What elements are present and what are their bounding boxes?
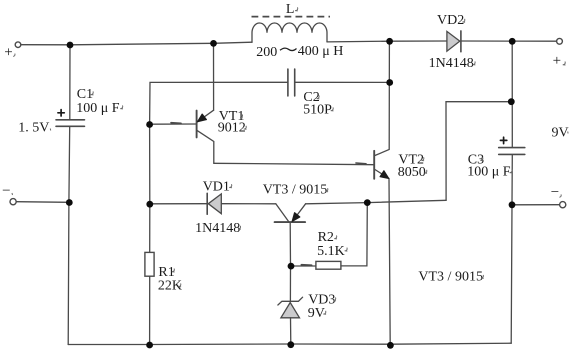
plus sign of C3 xyxy=(500,137,506,143)
node top rail / C1 xyxy=(67,42,74,49)
node bottom rail / VT2 emitter xyxy=(387,342,394,349)
svg-text:VD3: VD3 xyxy=(308,292,335,307)
node top rail / output plus xyxy=(509,38,516,45)
wire VT3 emitter to corner xyxy=(306,200,447,204)
wire R2 node down to VD3 xyxy=(289,266,291,301)
transistor VT2 emitter arrow xyxy=(380,171,389,179)
transistor VT1 base bar xyxy=(196,111,198,138)
terminal circles xyxy=(10,38,566,207)
svg-text:−: − xyxy=(2,183,10,199)
node left minus / C1 branch xyxy=(66,199,73,206)
wire corner up to C3 top node xyxy=(446,102,511,201)
svg-text:510P: 510P xyxy=(303,102,332,117)
wire R2 to VT3 base node xyxy=(291,265,316,267)
terminal top-left plus xyxy=(15,42,21,48)
node C2 right on collector line xyxy=(386,79,393,86)
svg-text:9V: 9V xyxy=(308,306,325,321)
wire bottom rail xyxy=(68,343,511,344)
terminal top-right plus xyxy=(557,38,563,44)
arrow tick on R2 wire xyxy=(302,264,312,267)
svg-text:5.1K: 5.1K xyxy=(317,244,345,259)
svg-text:1. 5V: 1. 5V xyxy=(18,120,49,135)
resistor R1 body xyxy=(145,252,154,276)
svg-text:8050: 8050 xyxy=(398,165,426,180)
wire C3 vertical xyxy=(511,41,512,343)
transistor VT3 base bar xyxy=(275,221,306,223)
svg-text:100 μ F: 100 μ F xyxy=(467,165,511,180)
wire right minus terminal xyxy=(512,204,559,206)
svg-text:R2: R2 xyxy=(318,230,334,245)
svg-text:+: + xyxy=(4,44,12,60)
terminal bottom-right minus xyxy=(560,202,566,208)
wire top rail middle segment xyxy=(327,40,446,43)
wire left minus terminal xyxy=(16,201,69,204)
node C3 top xyxy=(508,98,515,105)
transistor VT2 emitter xyxy=(375,170,390,345)
resistor R2 body xyxy=(316,261,341,269)
wire R2 right branch xyxy=(341,203,367,266)
transistor VT1 collector xyxy=(197,131,214,164)
svg-text:9V: 9V xyxy=(552,125,569,140)
wire C2 net left corner xyxy=(150,82,288,124)
wire VD1 net left xyxy=(150,203,276,205)
transistor VT3 collector lead xyxy=(276,204,289,222)
svg-text:L: L xyxy=(286,2,295,17)
node bottom rail / R1 xyxy=(146,342,153,349)
capacitor C3 plates xyxy=(499,148,525,155)
wire left column x=150 down to R1 and bottom rail xyxy=(149,125,151,346)
capacitor C2 plates xyxy=(288,69,295,96)
node C3 / right minus xyxy=(509,201,516,208)
wire C2 right to junction xyxy=(295,81,390,83)
transistor VT1 emitter xyxy=(197,110,213,122)
wire VT1 base xyxy=(150,123,196,125)
svg-text:1N4148: 1N4148 xyxy=(195,221,240,236)
node bottom rail / VD3 xyxy=(287,341,294,348)
transistor VT3 emitter arrow xyxy=(292,213,300,222)
zener diode VD3 cathode bar xyxy=(278,297,303,305)
arrow on wire to VT2 base xyxy=(356,162,366,165)
node VT1 base xyxy=(146,121,153,128)
svg-text:VD1: VD1 xyxy=(203,180,230,195)
wire C1 branch vertical xyxy=(68,45,70,345)
node top rail / VT2 collector xyxy=(386,38,393,45)
node VT3 base / R2 / VD3 xyxy=(288,263,295,270)
svg-text:VT3 / 9015: VT3 / 9015 xyxy=(263,183,328,198)
wire top rail left segment xyxy=(21,42,252,45)
node VT3 emitter / R2 branch xyxy=(364,199,371,206)
node top rail / VT1 emitter xyxy=(210,40,217,47)
transistor VT1 emitter arrow xyxy=(198,114,207,122)
svg-text:22K: 22K xyxy=(158,278,182,293)
capacitor C1 plates xyxy=(56,120,85,127)
inductor L xyxy=(252,23,327,42)
svg-text:1N4148: 1N4148 xyxy=(429,56,474,71)
transistor VT2 base bar xyxy=(373,151,375,179)
transistor VT2 collector xyxy=(375,41,390,155)
zener diode VD3 triangle xyxy=(281,303,300,318)
node VD1 left xyxy=(146,201,153,208)
wire VD3 to bottom rail xyxy=(290,318,292,345)
diode VD2 cathode bar xyxy=(460,31,462,52)
svg-text:+: + xyxy=(553,53,561,69)
svg-text:VD2: VD2 xyxy=(437,13,464,28)
wire VT1 collector to VT2 base xyxy=(214,163,374,164)
diode VD2 triangle xyxy=(447,31,460,51)
diode VD1 triangle xyxy=(208,194,221,214)
svg-text:100 μ F: 100 μ F xyxy=(76,101,120,116)
dashed line above L xyxy=(252,16,331,18)
wire VT1 emitter vertical xyxy=(213,43,215,110)
svg-text:−: − xyxy=(551,185,559,201)
svg-text:400 μ H: 400 μ H xyxy=(298,44,344,59)
arrow tick on VT1 base wire xyxy=(171,122,181,125)
svg-text:VT3 / 9015: VT3 / 9015 xyxy=(418,269,483,284)
wire top rail right segment xyxy=(462,40,557,42)
wire VT3 base down to R2 node xyxy=(289,222,291,266)
svg-text:9012: 9012 xyxy=(218,121,246,136)
svg-text:200: 200 xyxy=(256,45,277,60)
label 200~400 uH xyxy=(280,48,297,50)
transistor VT3 emitter lead xyxy=(292,204,305,222)
plus sign of C1 xyxy=(58,110,64,116)
diode VD1 cathode bar xyxy=(206,193,208,214)
terminal bottom-left minus xyxy=(10,199,16,205)
